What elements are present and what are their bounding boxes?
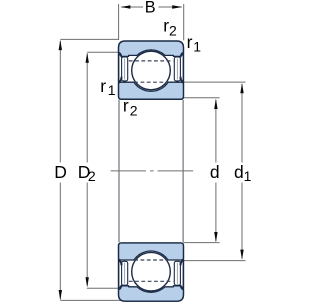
svg-text:r: r bbox=[123, 95, 129, 115]
svg-text:2: 2 bbox=[88, 168, 96, 184]
svg-text:1: 1 bbox=[244, 168, 252, 184]
svg-text:2: 2 bbox=[169, 23, 177, 39]
svg-text:d: d bbox=[210, 162, 220, 182]
svg-text:1: 1 bbox=[108, 82, 116, 98]
svg-text:d: d bbox=[234, 162, 244, 182]
svg-text:2: 2 bbox=[130, 102, 138, 118]
svg-text:1: 1 bbox=[193, 39, 201, 55]
svg-text:r: r bbox=[187, 32, 193, 52]
svg-text:B: B bbox=[145, 0, 156, 17]
svg-text:D: D bbox=[54, 162, 67, 182]
svg-text:r: r bbox=[100, 76, 106, 96]
